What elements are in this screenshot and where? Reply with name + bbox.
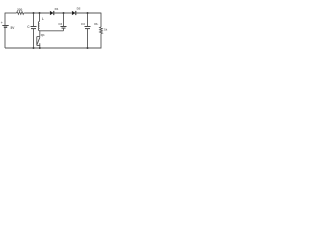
wire C1 branch upper bbox=[33, 13, 35, 26]
node B junction dot bbox=[39, 12, 41, 14]
svg-text:+: + bbox=[1, 21, 3, 25]
wire left rail lower bbox=[4, 27, 6, 48]
svg-text:220: 220 bbox=[17, 8, 23, 12]
capacitor C2 bbox=[61, 27, 67, 29]
node C junction dot bbox=[63, 12, 65, 14]
svg-text:1k: 1k bbox=[104, 28, 108, 32]
wire switch top lead bbox=[39, 31, 41, 37]
resistor R1 bbox=[17, 12, 25, 15]
wire top rail right of D2 bbox=[76, 12, 101, 14]
diode D1 bbox=[50, 11, 54, 15]
wire top rail bbox=[5, 12, 17, 14]
bottom junction dot C3 bbox=[87, 47, 89, 49]
wire right rail upper bbox=[100, 13, 102, 27]
wire L1 branch upper bbox=[39, 13, 41, 22]
wire C2 branch lower bbox=[63, 29, 65, 31]
resistor R2 bbox=[100, 27, 103, 34]
wire C1 branch lower bbox=[33, 29, 35, 48]
transistor Q1 bbox=[37, 37, 40, 46]
battery V1 bbox=[2, 26, 8, 28]
svg-text:D1: D1 bbox=[55, 7, 59, 11]
svg-text:Q1: Q1 bbox=[41, 33, 45, 37]
svg-text:C3: C3 bbox=[81, 22, 85, 26]
wire top rail right of D1 bbox=[54, 12, 72, 14]
svg-text:D2: D2 bbox=[77, 6, 81, 10]
bottom junction dot C1 bbox=[33, 47, 35, 49]
wire switch bottom lead bbox=[39, 45, 41, 48]
svg-text:L: L bbox=[42, 17, 44, 21]
wire C3 branch upper bbox=[87, 13, 89, 26]
node D junction dot bbox=[87, 12, 89, 14]
diode D2 bbox=[72, 11, 76, 15]
bottom junction dot switch bbox=[39, 47, 41, 49]
wire top rail middle bbox=[25, 12, 50, 14]
node A junction dot bbox=[33, 12, 35, 14]
wire mid node horizontal bbox=[40, 30, 64, 32]
wire left rail upper bbox=[4, 13, 6, 26]
wire C3 branch lower bbox=[87, 29, 89, 48]
wire C2 branch upper bbox=[63, 13, 65, 26]
wire bottom rail bbox=[5, 47, 101, 49]
svg-text:RL: RL bbox=[94, 22, 98, 26]
capacitor C3 bbox=[85, 27, 91, 29]
svg-text:C: C bbox=[27, 25, 30, 29]
inductor L1 bbox=[38, 22, 39, 31]
wire right rail lower bbox=[100, 34, 102, 49]
svg-text:C2: C2 bbox=[58, 22, 62, 26]
svg-text:5V: 5V bbox=[11, 26, 16, 30]
capacitor C1 bbox=[31, 27, 37, 29]
